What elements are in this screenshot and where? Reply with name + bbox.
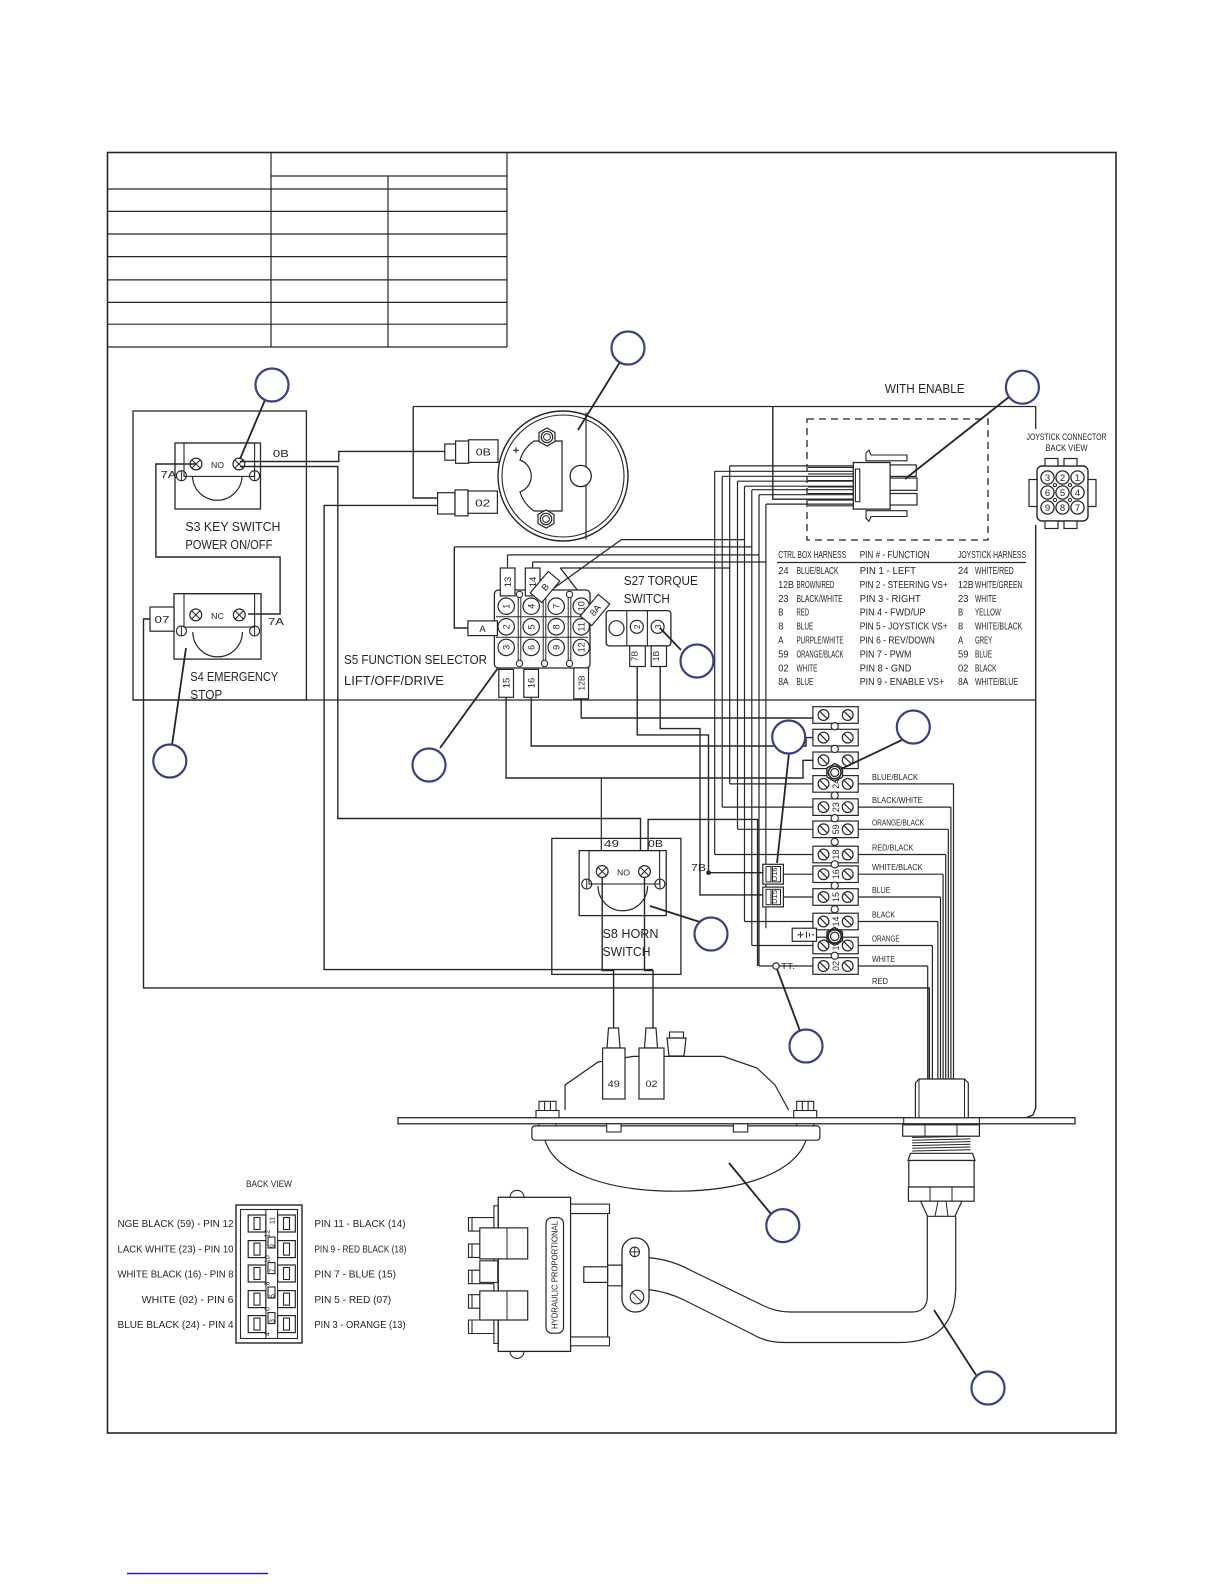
gland hex nut (903, 1125, 980, 1136)
svg-text:WHITE: WHITE (872, 954, 895, 964)
svg-text:8: 8 (265, 1281, 272, 1285)
gauge chord line (585, 413, 587, 540)
S8 body arc (598, 886, 648, 911)
svg-text:18: 18 (831, 849, 841, 859)
gauge hex nut bottom (538, 510, 554, 528)
svg-text:7B: 7B (691, 863, 706, 874)
S8 screw right (639, 866, 651, 878)
svg-text:PIN 4 - FWD/UP: PIN 4 - FWD/UP (860, 607, 926, 619)
svg-text:8: 8 (778, 621, 783, 633)
svg-text:ORANGE/BLACK: ORANGE/BLACK (797, 648, 844, 660)
wire pin8 from top line down to connector (773, 407, 853, 500)
pin pair row 1 (248, 1215, 266, 1232)
svg-text:BLACK/WHITE: BLACK/WHITE (797, 593, 843, 605)
terminal strip hex nut mid (827, 927, 843, 945)
wire (751, 490, 753, 946)
svg-text:3: 3 (502, 645, 512, 650)
svg-text:WHITE/BLACK: WHITE/BLACK (975, 621, 1022, 633)
footer link underline (127, 1573, 268, 1575)
pin pair row 3 (248, 1265, 266, 1282)
svg-text:02: 02 (646, 1079, 658, 1090)
pin pair row 2 (248, 1241, 266, 1258)
svg-text:PIN 5 - JOYSTICK VS+: PIN 5 - JOYSTICK VS+ (860, 621, 948, 633)
svg-text:S5 FUNCTION SELECTOR: S5 FUNCTION SELECTOR (344, 652, 487, 667)
connector plug in dashed box (853, 463, 890, 510)
svg-text:GREY: GREY (975, 635, 992, 647)
wire (729, 466, 731, 784)
wire bundle top horizontals to connector (730, 465, 853, 467)
horn spade 49 (607, 1028, 620, 1048)
callout circle (766, 1209, 799, 1242)
diagonal wire to tag B (552, 540, 621, 590)
S5 selector body (494, 590, 590, 668)
wire BLACK/WHITE (858, 806, 951, 808)
wire bundle bottoms to terminal strip (730, 783, 813, 785)
wire WHITE/BLACK (858, 873, 943, 875)
callout circle (612, 332, 645, 365)
diode D16 (763, 864, 784, 884)
wires to S5 area (621, 539, 744, 541)
callout circle (772, 721, 805, 754)
svg-text:PIN 2 - STEERING VS+: PIN 2 - STEERING VS+ (860, 579, 948, 591)
terminal block 18 (813, 846, 858, 863)
svg-text:12B: 12B (577, 675, 587, 690)
callout line (777, 753, 789, 863)
terminal block 02 (813, 958, 858, 975)
valve bottom bump (510, 1351, 524, 1358)
svg-text:BLUE BLACK (24) - PIN 4: BLUE BLACK (24) - PIN 4 (118, 1319, 234, 1331)
horn dome (545, 1140, 806, 1191)
svg-text:BLACK/WHITE: BLACK/WHITE (872, 795, 923, 805)
callout line (934, 1310, 976, 1375)
svg-text:STOP: STOP (190, 687, 222, 702)
svg-text:ORANGE: ORANGE (872, 934, 900, 944)
svg-text:16: 16 (831, 869, 841, 879)
svg-text:S3 KEY SWITCH: S3 KEY SWITCH (185, 519, 280, 534)
svg-text:11: 11 (577, 622, 587, 631)
S8 ear left (582, 879, 592, 889)
svg-text:WHITE (02) - PIN 6: WHITE (02) - PIN 6 (142, 1294, 234, 1306)
S3 screw right (233, 458, 245, 470)
svg-text:BLUE: BLUE (797, 676, 814, 688)
svg-text:S8 HORN: S8 HORN (603, 926, 659, 941)
svg-text:A: A (778, 635, 783, 647)
svg-text:WHITE/BLUE: WHITE/BLUE (975, 676, 1018, 688)
callout circle (1006, 371, 1039, 404)
12-pin connector body (236, 1205, 302, 1343)
valve connector block 1 (480, 1228, 528, 1259)
valve spool (584, 1267, 608, 1283)
svg-text:23: 23 (778, 593, 789, 605)
terminal block 23 (813, 799, 858, 816)
svg-text:15: 15 (502, 678, 513, 689)
box around S3 S4 (133, 411, 306, 700)
mounting plate (398, 1118, 1075, 1124)
switch S3 key switch (175, 443, 261, 509)
svg-text:59: 59 (831, 824, 841, 834)
callout circle (897, 711, 930, 744)
joystick connector pins (1041, 471, 1054, 484)
page border (108, 153, 1117, 1434)
svg-text:NO: NO (211, 460, 224, 470)
svg-text:S4 EMERGENCY: S4 EMERGENCY (190, 669, 278, 684)
callout line (240, 400, 265, 459)
terminal block x (813, 707, 858, 724)
svg-text:7B: 7B (630, 650, 640, 661)
callout line (729, 1163, 771, 1214)
terminal block 15 (813, 889, 858, 906)
wire 1B to D15 (660, 667, 763, 895)
pin pair row 4 (248, 1291, 266, 1308)
hour meter box top line (413, 406, 1035, 408)
valve left face (494, 1206, 498, 1344)
callout circle (413, 749, 446, 782)
svg-text:24: 24 (958, 565, 969, 577)
svg-text:3: 3 (270, 1319, 277, 1323)
svg-text:7: 7 (1075, 503, 1080, 514)
horn upper body (565, 1056, 789, 1110)
S4 ear left (176, 626, 186, 636)
svg-text:8: 8 (1060, 503, 1065, 514)
revision table (empty) (270, 153, 272, 348)
wire BLACK (858, 921, 938, 923)
callout circle (972, 1372, 1005, 1405)
lever bracket capsule (622, 1238, 649, 1312)
S4 body arc (193, 632, 243, 657)
svg-text:7: 7 (552, 604, 562, 609)
S5 tag wires up (507, 555, 509, 568)
svg-text:24: 24 (778, 565, 789, 577)
svg-text:NO: NO (617, 868, 630, 878)
joystick connector body (1037, 466, 1088, 521)
svg-text:RED/BLACK: RED/BLACK (872, 843, 914, 853)
switch S4 emergency stop (174, 594, 261, 659)
svg-text:BLUE: BLUE (797, 621, 814, 633)
harness table header underline (777, 562, 1026, 564)
S4 screw left (190, 609, 202, 621)
tube from lever to cable gland upper line (649, 1216, 927, 1312)
wire 0B branch S8 to polarity tag (648, 819, 758, 966)
wire 7A net S3 to S4 (156, 464, 280, 614)
connector latch top (866, 450, 907, 461)
svg-text:2: 2 (632, 624, 642, 629)
S27 circle 2 (630, 620, 643, 633)
S5 tag 8A diagonal (580, 594, 609, 625)
S5 tag 15 (499, 669, 514, 697)
svg-text:WHITE: WHITE (797, 662, 818, 674)
svg-text:12B: 12B (778, 579, 794, 591)
S5 tag B diagonal (530, 571, 559, 602)
S5 tag 14 (525, 568, 540, 596)
svg-text:0B: 0B (476, 447, 491, 459)
lever T arm (583, 1260, 622, 1292)
right panel right edge / joystick harness line (1035, 407, 1037, 430)
tube from lever to cable gland lower line (649, 1216, 956, 1342)
svg-text:WITH ENABLE: WITH ENABLE (885, 382, 965, 396)
connector latch bottom (866, 511, 907, 522)
svg-text:PIN 1 - LEFT: PIN 1 - LEFT (860, 565, 917, 577)
svg-text:49: 49 (604, 838, 619, 850)
terminal block x (813, 729, 858, 746)
callout line (440, 668, 498, 748)
wire S8 49 branch from 15-line (600, 778, 602, 868)
svg-text:D16: D16 (770, 867, 779, 881)
S3 ear left (176, 471, 186, 481)
svg-text:7A: 7A (268, 616, 284, 628)
svg-text:ORANGE/BLACK: ORANGE/BLACK (872, 817, 924, 827)
svg-text:11: 11 (270, 1217, 277, 1224)
svg-text:6: 6 (1045, 488, 1050, 499)
svg-text:B: B (778, 607, 783, 619)
svg-text:4: 4 (1075, 488, 1080, 499)
valve connector block mid (480, 1261, 498, 1283)
wire BLUE (858, 896, 940, 898)
svg-text:2: 2 (502, 624, 512, 629)
svg-text:PIN 7 - BLUE (15): PIN 7 - BLUE (15) (314, 1269, 396, 1281)
svg-text:BROWN/RED: BROWN/RED (797, 579, 835, 591)
terminal block 14 (813, 913, 858, 930)
svg-text:7: 7 (270, 1268, 277, 1272)
bracket screw top (630, 1247, 640, 1257)
wire 0B lower S3 down to S8 horn switch (240, 467, 641, 869)
wire 07 RED from S4 tag to cable gland (144, 619, 930, 1079)
spade terminal 02 (438, 493, 455, 514)
S8 wires down to horn (602, 877, 613, 1030)
svg-text:A: A (958, 635, 963, 647)
svg-text:5: 5 (1060, 488, 1065, 499)
callout line (650, 906, 700, 922)
horn top bolt (667, 1038, 686, 1056)
S5 tag wires down 15 16 12B (506, 697, 813, 778)
spade terminal 0B (445, 444, 456, 460)
svg-text:PIN # - FUNCTION: PIN # - FUNCTION (860, 549, 930, 561)
callout circle (681, 645, 714, 678)
callout circle (153, 745, 186, 778)
svg-text:1: 1 (1075, 473, 1080, 484)
S5 tag A (468, 621, 498, 636)
svg-text:8: 8 (958, 621, 963, 633)
callout circle (256, 369, 289, 402)
S27 torque switch body (606, 611, 671, 646)
S5 tag 12B (574, 668, 589, 699)
svg-text:SWITCH: SWITCH (603, 944, 651, 959)
callout line (172, 648, 186, 745)
svg-text:12: 12 (265, 1230, 272, 1238)
svg-text:WHITE/GREEN: WHITE/GREEN (975, 579, 1022, 591)
svg-text:2: 2 (1060, 473, 1065, 484)
svg-text:02: 02 (778, 662, 789, 674)
svg-text:JOYSTICK CONNECTOR: JOYSTICK CONNECTOR (1027, 432, 1107, 443)
svg-text:BACK VIEW: BACK VIEW (1046, 443, 1088, 454)
callout line (777, 969, 800, 1031)
valve connector block 2 (480, 1291, 528, 1320)
svg-text:B: B (958, 607, 963, 619)
wire (737, 481, 739, 829)
S5 tag 16 (524, 669, 539, 697)
svg-text:14: 14 (831, 916, 841, 926)
svg-text:LACK WHITE (23) - PIN 10: LACK WHITE (23) - PIN 10 (118, 1244, 234, 1256)
switch S8 horn switch (579, 851, 666, 916)
S8 screw left (596, 866, 608, 878)
svg-text:1: 1 (502, 604, 512, 609)
wire ORANGE (858, 945, 932, 947)
S4 tag 07 (150, 607, 174, 631)
svg-text:4: 4 (527, 604, 537, 609)
gland body (909, 1161, 974, 1188)
svg-text:HYDRAULIC PROPORTIONAL: HYDRAULIC PROPORTIONAL (551, 1221, 560, 1329)
svg-text:12B: 12B (958, 579, 974, 591)
svg-text:23: 23 (958, 593, 969, 605)
svg-text:D15: D15 (770, 890, 779, 904)
svg-text:BACK VIEW: BACK VIEW (246, 1179, 292, 1190)
svg-text:RED: RED (872, 976, 888, 986)
gauge center circle (570, 465, 591, 486)
svg-text:PIN 8 - GND: PIN 8 - GND (860, 662, 912, 674)
S4 ear right (250, 626, 260, 636)
horn flange (532, 1126, 820, 1140)
svg-text:13: 13 (503, 577, 514, 588)
svg-text:3: 3 (1045, 473, 1050, 484)
wire ORANGE/BLACK (858, 828, 948, 830)
svg-text:59: 59 (778, 648, 789, 660)
S27 tag 1B (651, 646, 666, 667)
svg-text:BLACK: BLACK (872, 910, 895, 920)
svg-text:9: 9 (552, 645, 562, 650)
svg-text:59: 59 (958, 648, 969, 660)
gland lower hex (908, 1187, 974, 1201)
wire (758, 495, 760, 966)
svg-text:PIN 6 - REV/DOWN: PIN 6 - REV/DOWN (860, 635, 935, 647)
svg-text:49: 49 (608, 1079, 620, 1090)
svg-text:PIN 5 - RED (07): PIN 5 - RED (07) (314, 1294, 391, 1306)
svg-text:S27 TORQUE: S27 TORQUE (624, 573, 698, 588)
connector wires inside dashed box (808, 466, 853, 468)
svg-text:A: A (479, 624, 486, 635)
terminal block 59 (813, 821, 858, 838)
svg-text:WHITE/RED: WHITE/RED (975, 565, 1014, 577)
S8 ear right (655, 879, 665, 889)
svg-text:6: 6 (527, 645, 537, 650)
svg-text:0B: 0B (273, 448, 289, 460)
svg-text:6: 6 (265, 1307, 272, 1311)
S5 tag 13 (500, 568, 515, 596)
gland collar (908, 1153, 975, 1160)
svg-text:BLUE: BLUE (872, 885, 891, 895)
svg-text:PIN 11 - BLACK (14): PIN 11 - BLACK (14) (314, 1218, 405, 1230)
callout line (905, 397, 1009, 479)
S27 tag 7B (630, 646, 646, 667)
svg-text:10: 10 (265, 1255, 272, 1263)
wire 0B upper S3 to hour meter terminal (240, 451, 445, 461)
bracket screw bottom (630, 1290, 644, 1304)
svg-text:BLUE: BLUE (975, 648, 992, 660)
TT junction (773, 963, 779, 969)
svg-text:WHITE/BLACK: WHITE/BLACK (872, 862, 923, 872)
callout circle (790, 1030, 823, 1063)
svg-text:YELLOW: YELLOW (975, 607, 1001, 619)
svg-text:NGE BLACK (59) - PIN 12: NGE BLACK (59) - PIN 12 (118, 1218, 234, 1230)
S27 circle 3 (651, 620, 664, 633)
gauge D cutout (520, 441, 562, 511)
valve right side (571, 1214, 608, 1338)
svg-text:02: 02 (958, 662, 969, 674)
svg-text:8: 8 (552, 624, 562, 629)
hydraulic valve body (498, 1197, 570, 1351)
wire (765, 504, 767, 928)
S4 screw right (233, 609, 245, 621)
svg-text:PIN 3 - ORANGE (13): PIN 3 - ORANGE (13) (314, 1319, 405, 1331)
diode D15 (763, 887, 784, 907)
hour meter gauge (498, 411, 628, 541)
svg-text:5: 5 (527, 624, 537, 629)
svg-text:0B: 0B (648, 838, 663, 850)
svg-text:SWITCH: SWITCH (624, 591, 670, 606)
svg-text:12: 12 (577, 642, 587, 652)
terminal strip hex nut top (827, 764, 843, 782)
valve label plate (546, 1218, 564, 1334)
svg-text:8A: 8A (958, 676, 968, 688)
svg-text:WHITE BLACK (16) - PIN 8: WHITE BLACK (16) - PIN 8 (118, 1269, 234, 1281)
callout circle (695, 918, 728, 951)
svg-text:PURPLE/WHITE: PURPLE/WHITE (797, 635, 844, 647)
svg-text:BLUE/BLACK: BLUE/BLACK (872, 772, 918, 782)
svg-text:02: 02 (475, 498, 490, 510)
svg-text:TT.: TT. (781, 961, 795, 971)
svg-text:23: 23 (831, 802, 841, 812)
svg-text:5: 5 (270, 1294, 277, 1298)
gauge plus mark (513, 449, 519, 451)
svg-text:WHITE: WHITE (975, 593, 997, 605)
plate bolt right (794, 1111, 817, 1118)
gauge hex nut top (539, 428, 555, 446)
terminal block 13 (813, 937, 858, 954)
terminal block x (813, 752, 858, 769)
svg-text:9: 9 (1045, 503, 1050, 514)
svg-text:BLUE/BLACK: BLUE/BLACK (797, 565, 839, 577)
svg-text:9: 9 (270, 1244, 277, 1248)
wire A tag (454, 547, 470, 628)
svg-text:RED: RED (797, 607, 810, 619)
gland cone (921, 1201, 962, 1216)
wire (744, 486, 746, 921)
wire 02 hour meter down to horn (324, 505, 653, 969)
S3 screw left (190, 458, 202, 470)
svg-text:LIFT/OFF/DRIVE: LIFT/OFF/DRIVE (344, 673, 444, 688)
diagonal wire to tag 8A (560, 568, 585, 600)
wire (714, 471, 716, 854)
plate tick marks (903, 1118, 905, 1124)
svg-text:7A: 7A (161, 469, 177, 481)
callout line (841, 740, 902, 769)
svg-text:1B: 1B (651, 650, 661, 661)
svg-text:8A: 8A (778, 676, 788, 688)
svg-text:NC: NC (211, 611, 224, 621)
svg-text:BLACK: BLACK (975, 662, 997, 674)
S3 ear right (250, 471, 260, 481)
gland threads (912, 1136, 970, 1137)
svg-text:16: 16 (527, 678, 538, 689)
gland top block (915, 1079, 968, 1118)
terminal block 16 (813, 866, 858, 883)
svg-text:POWER ON/OFF: POWER ON/OFF (185, 537, 272, 552)
valve pins (469, 1218, 494, 1232)
svg-text:CTRL BOX HARNESS: CTRL BOX HARNESS (778, 549, 846, 561)
wire WHITE (858, 965, 928, 967)
dashed box (807, 419, 988, 540)
joystick connector small dots (1053, 483, 1056, 486)
terminal strip holes (831, 723, 838, 730)
S3 body arc (193, 477, 243, 500)
